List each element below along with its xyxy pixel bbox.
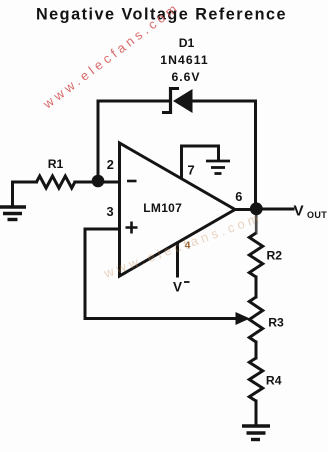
wire: diode branch right segment	[192, 100, 256, 103]
ground (pin 7)	[206, 161, 230, 174]
svg-text:R1: R1	[48, 157, 64, 171]
wiper arrowhead	[236, 312, 250, 325]
wire: R1 to node A	[75, 181, 98, 184]
plus input marker	[126, 222, 138, 234]
svg-text:D1: D1	[179, 36, 195, 50]
svg-text:2: 2	[107, 157, 114, 172]
wire: feedback left vertical	[84, 229, 87, 319]
svg-text:OUT: OUT	[307, 210, 327, 220]
svg-text:LM107: LM107	[143, 201, 182, 215]
wire: wiper arrow horizontal	[85, 317, 237, 320]
minus input marker	[127, 180, 137, 183]
wire: pin 6 to output node	[234, 208, 256, 211]
svg-text:7: 7	[187, 163, 194, 178]
wire: node A to pin 2	[98, 181, 119, 184]
ground (bottom)	[242, 426, 270, 440]
svg-text:R3: R3	[268, 316, 284, 330]
node A junction dot (pin 2)	[92, 175, 105, 188]
wire: R4 to ground	[255, 401, 258, 425]
resistor R4	[249, 358, 262, 401]
svg-text:R2: R2	[267, 249, 283, 263]
potentiometer R3	[249, 297, 262, 342]
resistor R1	[37, 176, 75, 188]
wire: pin 7 to ground hook	[182, 146, 219, 178]
svg-text:R4: R4	[266, 374, 282, 388]
svg-text:6: 6	[235, 189, 242, 204]
wire: pin 3 horizontal	[85, 228, 119, 231]
wire: R2 to R3	[255, 277, 258, 297]
svg-text:6.6V: 6.6V	[171, 70, 200, 84]
wire: pin 4 stub	[176, 243, 179, 276]
zener diode D1	[162, 87, 193, 114]
wire: R3 to R4	[255, 342, 258, 358]
svg-text:1N4611: 1N4611	[160, 53, 209, 67]
svg-text:3: 3	[106, 204, 113, 219]
svg-text:V: V	[294, 203, 305, 220]
op-amp U1 LM107	[120, 143, 236, 276]
wire: right vertical from diode to output node	[254, 101, 257, 209]
resistor R2	[249, 233, 262, 277]
wire: output node down to R2	[255, 214, 258, 233]
svg-text:V: V	[173, 280, 182, 295]
wire: top left vertical (node A to diode wire)	[97, 101, 100, 181]
wire: R1 ground riser	[13, 182, 37, 206]
wire: diode branch left segment	[98, 100, 169, 103]
output node junction dot	[250, 202, 263, 215]
wire: output node to VOUT	[257, 208, 294, 211]
ground (R1)	[0, 207, 26, 220]
